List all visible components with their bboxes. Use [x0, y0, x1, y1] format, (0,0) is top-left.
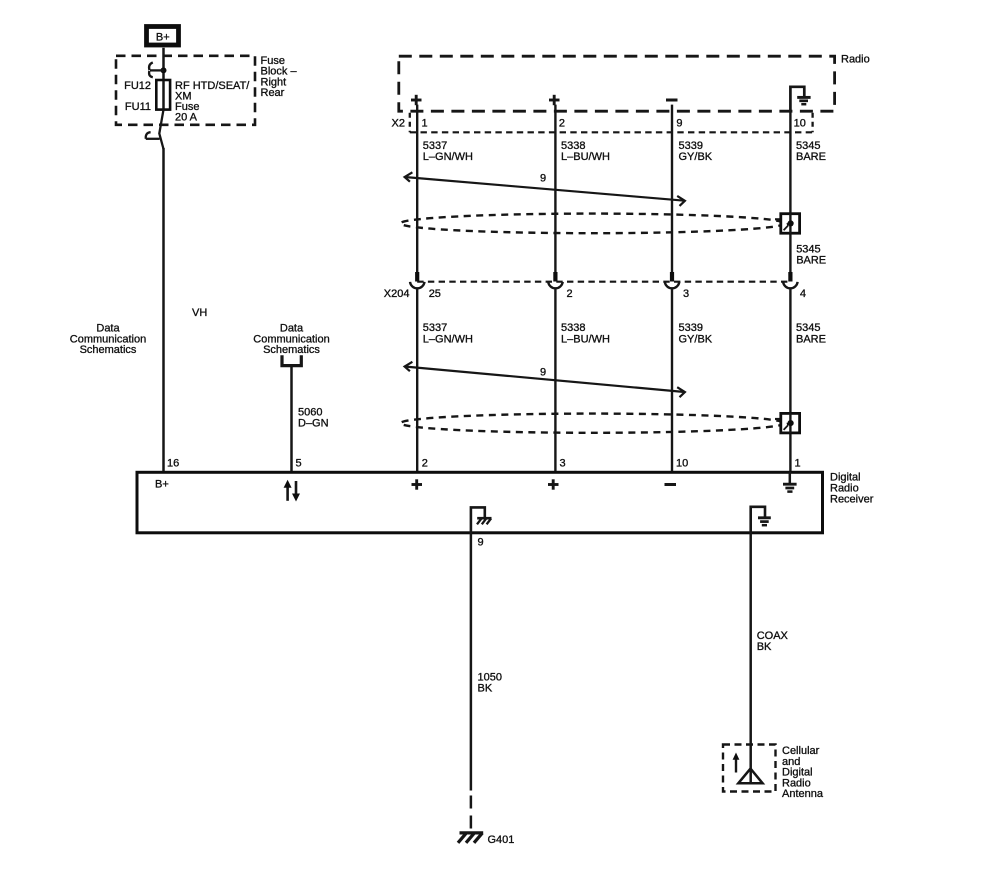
svg-text:20 A: 20 A: [175, 112, 198, 124]
connector X204 terminal pin 2: [548, 272, 563, 288]
label Fuse Block - Right Rear: [261, 55, 298, 99]
svg-text:5337: 5337: [423, 322, 447, 334]
svg-text:G401: G401: [488, 834, 515, 846]
label Digital Radio Receiver: [830, 472, 874, 506]
label 5345 BARE lower: [796, 322, 826, 346]
connector X204 terminal pin 4: [783, 272, 798, 288]
svg-text:Radio: Radio: [841, 54, 870, 66]
svg-text:2: 2: [559, 118, 565, 130]
label 5338 L-BU/WH upper: [561, 140, 610, 163]
svg-text:FU12: FU12: [124, 80, 151, 92]
wire W6b 5345 bare shield vertical (X204 to receiver pin1): [789, 289, 791, 472]
label Cellular and Digital Radio Antenna: [782, 745, 824, 800]
label 5339 GY/BK lower: [679, 322, 713, 346]
label 5337 L-GN/WH upper: [423, 140, 473, 163]
svg-text:L–GN/WH: L–GN/WH: [423, 333, 473, 345]
svg-text:9: 9: [478, 537, 484, 549]
fuse block dashed enclosure: [116, 56, 255, 125]
radio dashed enclosure: [399, 56, 835, 111]
svg-text:5339: 5339: [679, 322, 703, 334]
svg-text:9: 9: [540, 367, 546, 379]
svg-text:25: 25: [429, 288, 441, 300]
svg-text:1: 1: [422, 118, 428, 130]
svg-text:1: 1: [795, 458, 801, 470]
shield stub into box lower: [775, 418, 781, 420]
label fuse value RF HTD/SEAT/ XM Fuse 20 A: [175, 80, 250, 124]
shield splice box lower: [781, 413, 800, 433]
receiver internal coax shield ground: [751, 507, 771, 533]
label 1050 BK: [478, 672, 502, 695]
wire W5 5339 vertical (radio pin9 to X204): [671, 105, 673, 282]
off-page bracket for serial data: [282, 355, 301, 365]
label COAX BK: [757, 630, 789, 653]
svg-text:Schematics: Schematics: [80, 344, 137, 356]
label Data Communication Schematics (serial data reference): [253, 323, 329, 357]
antenna dashed enclosure: [723, 745, 776, 792]
receiver pin 5 bidirectional arrows: [284, 480, 300, 502]
svg-text:Receiver: Receiver: [830, 494, 874, 506]
svg-text:5: 5: [296, 458, 302, 470]
connector X204 terminal pin 25: [410, 272, 425, 288]
connector hook upper at fuse: [149, 62, 163, 77]
connector hook lower at fuse: [146, 110, 164, 149]
svg-text:Rear: Rear: [261, 87, 285, 99]
svg-text:5338: 5338: [561, 322, 585, 334]
label 5339 GY/BK upper: [679, 140, 713, 163]
connector X204 terminal pin 3: [665, 272, 680, 288]
svg-text:3: 3: [683, 288, 689, 300]
svg-text:16: 16: [167, 458, 179, 470]
svg-text:X2: X2: [392, 118, 405, 130]
label 5337 L-GN/WH lower: [423, 322, 473, 346]
shield splice box upper: [781, 214, 800, 234]
receiver pin 1 internal ground: [783, 472, 797, 491]
connector X204 mating line: [417, 281, 790, 283]
svg-text:GY/BK: GY/BK: [679, 333, 713, 345]
svg-text:10: 10: [676, 458, 688, 470]
wire W4b 5338 vertical (X204 to receiver pin3): [554, 289, 556, 472]
svg-text:Antenna: Antenna: [782, 788, 824, 800]
wire W6 5345 bare shield vertical (radio pin10 to X204): [789, 111, 791, 281]
antenna up arrow: [733, 753, 740, 773]
svg-text:4: 4: [800, 288, 806, 300]
twisted pair routing arrow upper: [405, 172, 685, 206]
receiver pin 10 polarity -: [665, 483, 677, 486]
wire W3 5337 vertical (radio pin1 to X204): [416, 105, 418, 282]
receiver pin 3 polarity +: [548, 479, 559, 489]
svg-text:L–GN/WH: L–GN/WH: [423, 151, 473, 163]
svg-text:VH: VH: [192, 307, 207, 319]
svg-text:9: 9: [676, 118, 682, 130]
svg-text:FU11: FU11: [125, 101, 151, 113]
digital radio receiver box U1: [137, 472, 823, 533]
svg-text:BK: BK: [478, 683, 493, 695]
wire W2 serial data 5060 D-GN: [290, 366, 293, 473]
svg-text:B+: B+: [156, 32, 170, 44]
ground G401 chassis symbol: [458, 833, 483, 843]
wire W5b 5339 vertical (X204 to receiver pin10): [671, 289, 673, 472]
connector X2 end stub left: [409, 113, 411, 133]
svg-text:Schematics: Schematics: [263, 344, 320, 356]
node junction dot at fuse feed: [161, 67, 167, 73]
svg-text:B+: B+: [155, 479, 169, 491]
svg-text:BARE: BARE: [796, 255, 826, 267]
radio internal ground at pin 10: [790, 87, 810, 112]
radio pin 1 polarity +: [411, 95, 422, 105]
antenna element symbol: [738, 769, 762, 784]
wire W4 5338 vertical (radio pin2 to X204): [554, 105, 556, 282]
svg-text:5345: 5345: [796, 322, 820, 334]
svg-text:L–BU/WH: L–BU/WH: [561, 151, 610, 163]
wire W1 B+ feed vertical upper: [162, 48, 165, 110]
label 5345 BARE upper: [796, 140, 826, 163]
svg-text:BARE: BARE: [796, 151, 826, 163]
svg-text:L–BU/WH: L–BU/WH: [561, 333, 610, 345]
wire W7 1050 BK ground wire: [470, 533, 473, 791]
shield ellipse lower (drain wire loop): [401, 414, 785, 433]
svg-text:9: 9: [540, 173, 546, 185]
label 5338 L-BU/WH lower: [561, 322, 610, 346]
svg-text:2: 2: [422, 458, 428, 470]
svg-text:2: 2: [567, 288, 573, 300]
svg-text:BK: BK: [757, 641, 772, 653]
label Data Communication Schematics (left reference): [70, 323, 146, 357]
radio pin 9 polarity -: [666, 99, 678, 102]
label 5060 D-GN: [298, 407, 329, 430]
svg-text:X204: X204: [384, 288, 410, 300]
svg-text:GY/BK: GY/BK: [679, 151, 713, 163]
svg-text:3: 3: [560, 458, 566, 470]
wire W1 B+ feed vertical lower: [162, 148, 165, 472]
receiver pin 2 polarity +: [412, 479, 423, 489]
shield stub into box upper: [775, 218, 781, 220]
shield ellipse upper (drain wire loop): [401, 214, 785, 234]
node B+ battery feed box: [147, 27, 179, 46]
wire W3b 5337 vertical (X204 to receiver pin2): [416, 289, 418, 472]
svg-text:D–GN: D–GN: [298, 418, 329, 430]
connector X2 mating line: [410, 131, 813, 133]
fuse FU11/FU12 element: [156, 80, 170, 110]
wire W8 coax to antenna: [749, 533, 752, 783]
svg-text:10: 10: [794, 118, 806, 130]
label 5345 BARE at splice: [796, 244, 826, 267]
twisted pair routing arrow lower: [405, 362, 685, 397]
connector X2 end stub right: [811, 113, 813, 133]
wire W7 dashed continuation: [470, 796, 473, 832]
receiver internal chassis ground (pin 9 feed): [471, 507, 492, 532]
radio pin 2 polarity +: [549, 95, 560, 105]
svg-text:BARE: BARE: [796, 333, 826, 345]
